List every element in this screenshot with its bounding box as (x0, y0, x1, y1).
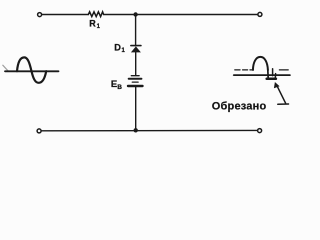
svg-text:R: R (89, 18, 96, 28)
output clipped waveform symbol (234, 57, 290, 79)
wire top left segment (42, 14, 88, 16)
svg-text:D: D (114, 42, 121, 52)
input sine waveform symbol (3, 57, 59, 82)
wire diode branch (135, 15, 137, 46)
label EB (111, 79, 122, 91)
label R1 (89, 18, 100, 30)
arrow leader to clipped part (274, 82, 289, 104)
input axis line (5, 70, 59, 72)
node top junction (133, 12, 137, 16)
svg-text:B: B (117, 84, 122, 91)
clipped negative lobe (267, 69, 276, 79)
terminal top-right (258, 12, 262, 16)
output positive half-cycle (253, 57, 268, 70)
label D1 (114, 42, 125, 54)
node bottom junction (134, 128, 138, 132)
output axis line (234, 74, 290, 76)
diode D1 (131, 46, 141, 53)
svg-text:1: 1 (122, 48, 126, 54)
input axis tick artifact (3, 65, 9, 71)
svg-text:1: 1 (97, 24, 101, 30)
wire diode to battery (135, 52, 137, 74)
battery EB (128, 76, 143, 86)
resistor R1 (88, 12, 103, 17)
wire top middle segment (104, 14, 258, 16)
terminal bottom-right (258, 129, 262, 133)
clipping level dashed line (235, 69, 288, 71)
terminal bottom-left (37, 129, 41, 133)
svg-text:Обрезано: Обрезано (212, 101, 267, 113)
wire battery to bottom node (135, 87, 137, 131)
svg-text:E: E (111, 79, 117, 90)
wire bottom (41, 129, 257, 131)
terminal top-left (38, 13, 42, 17)
input sine cycle (17, 57, 46, 82)
